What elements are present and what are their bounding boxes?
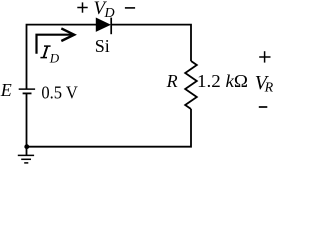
wire: battery positive up left side and across top to diode anode <box>27 25 97 89</box>
resistor R zigzag <box>185 61 197 109</box>
current arrow I_D shaft <box>37 35 73 54</box>
battery E short negative plate <box>23 92 32 94</box>
wire: battery negative down to ground <box>26 93 28 155</box>
svg-text:R: R <box>166 71 178 91</box>
ground symbol bar 3 <box>24 162 28 164</box>
wire: cathode across top and down to resistor top <box>111 25 191 61</box>
svg-text:D: D <box>104 6 115 21</box>
svg-text:1.2 kΩ: 1.2 kΩ <box>197 71 248 91</box>
svg-text:Si: Si <box>95 36 110 56</box>
svg-text:R: R <box>264 81 274 96</box>
label I of I_D <box>40 46 50 58</box>
junction node dot <box>24 144 29 149</box>
svg-text:D: D <box>49 51 60 66</box>
diode D (Si) anode triangle <box>96 18 110 31</box>
label plus sign of V_D <box>77 2 87 12</box>
current arrow I_D head <box>61 28 74 41</box>
svg-text:0.5 V: 0.5 V <box>41 82 78 102</box>
label plus sign of V_R <box>259 51 270 62</box>
label minus sign of V_D <box>125 7 135 9</box>
wire: resistor bottom down and across bottom to junction <box>27 109 191 147</box>
diode cathode bar <box>110 18 112 35</box>
svg-text:E: E <box>0 80 12 100</box>
ground symbol bar 2 <box>21 158 31 160</box>
label minus sign of V_R <box>259 106 268 108</box>
ground symbol bar 1 <box>18 154 34 156</box>
battery E long positive plate <box>19 88 35 90</box>
